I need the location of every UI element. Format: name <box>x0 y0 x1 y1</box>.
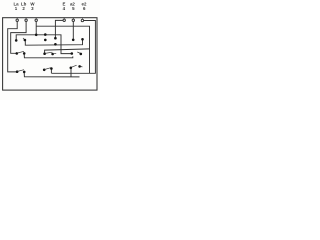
terminal 5 <box>72 18 74 22</box>
contact dot row2 right <box>71 52 74 55</box>
contact lever row1 left <box>23 38 25 40</box>
contact dot row3 mid <box>43 69 46 72</box>
svg-text:3: 3 <box>31 6 34 11</box>
wire T5 down <box>72 22 74 39</box>
junction row1 left <box>15 39 18 42</box>
wire stub right of row3 right-b <box>81 66 83 68</box>
node a2 label <box>70 2 75 11</box>
junction bus mid <box>44 33 47 36</box>
contact lever row2 mid <box>45 52 52 53</box>
wire row2 <box>24 54 73 57</box>
terminal 4 <box>63 18 65 22</box>
terminal 1 <box>16 18 18 22</box>
wire T2 down <box>11 22 26 54</box>
contact dot row3 mid-b <box>50 67 53 70</box>
svg-text:2: 2 <box>22 6 25 11</box>
contact dot row1 right <box>81 38 84 41</box>
contact lever row3 right <box>71 65 76 67</box>
wire row3 right stub <box>70 69 72 77</box>
contact dot row2 mid-b <box>51 53 54 56</box>
contact dot row2 left <box>15 52 18 55</box>
svg-text:5: 5 <box>72 6 75 11</box>
contact dot row2 right-b <box>80 53 83 56</box>
terminal 6 <box>81 18 83 22</box>
wire row3 <box>24 73 79 77</box>
contact dot row2 left-b <box>23 52 26 55</box>
wire row3 middle step <box>50 69 52 73</box>
contact lever row3 mid <box>45 68 51 70</box>
node E label <box>63 2 66 11</box>
terminal 3 <box>35 18 37 22</box>
svg-text:6: 6 <box>83 6 86 11</box>
junction row1 line <box>54 43 57 46</box>
enclosure box <box>3 18 97 90</box>
wire T1 down <box>8 22 18 72</box>
contact dot row3 left <box>16 70 19 73</box>
contact lever row3 left <box>17 70 24 72</box>
contact dot row3 right-b <box>78 65 81 68</box>
wire stub right of row2 mid-b <box>54 52 57 55</box>
contact dot row2 mid <box>43 52 46 55</box>
wire bus lower <box>16 35 71 54</box>
contact dot row1 mid <box>44 39 47 42</box>
wire T3 down <box>35 22 37 35</box>
node Lb label <box>21 2 27 11</box>
wire branch right to middle contact <box>45 49 90 53</box>
contact lever row2 right <box>77 52 81 54</box>
terminal 2 <box>25 18 27 22</box>
wire T6 right and down <box>52 21 96 74</box>
contact dot row3 right <box>70 67 73 70</box>
contact dot row1 left-b <box>24 39 27 42</box>
svg-text:4: 4 <box>63 6 66 11</box>
contact dot row1 T4 upper <box>54 37 57 40</box>
junction bus T3 <box>35 34 38 37</box>
contact dot row3 left-b <box>23 71 26 74</box>
contact dot row1 T5 <box>72 39 75 42</box>
node e2 label <box>82 2 87 11</box>
wire row1 <box>25 40 83 45</box>
wire T4 to contact <box>55 20 62 37</box>
contact lever row2 left <box>17 51 24 53</box>
node W label <box>30 2 35 11</box>
svg-text:1: 1 <box>15 6 18 11</box>
wire bus upper <box>36 26 89 73</box>
node La label <box>13 2 19 11</box>
